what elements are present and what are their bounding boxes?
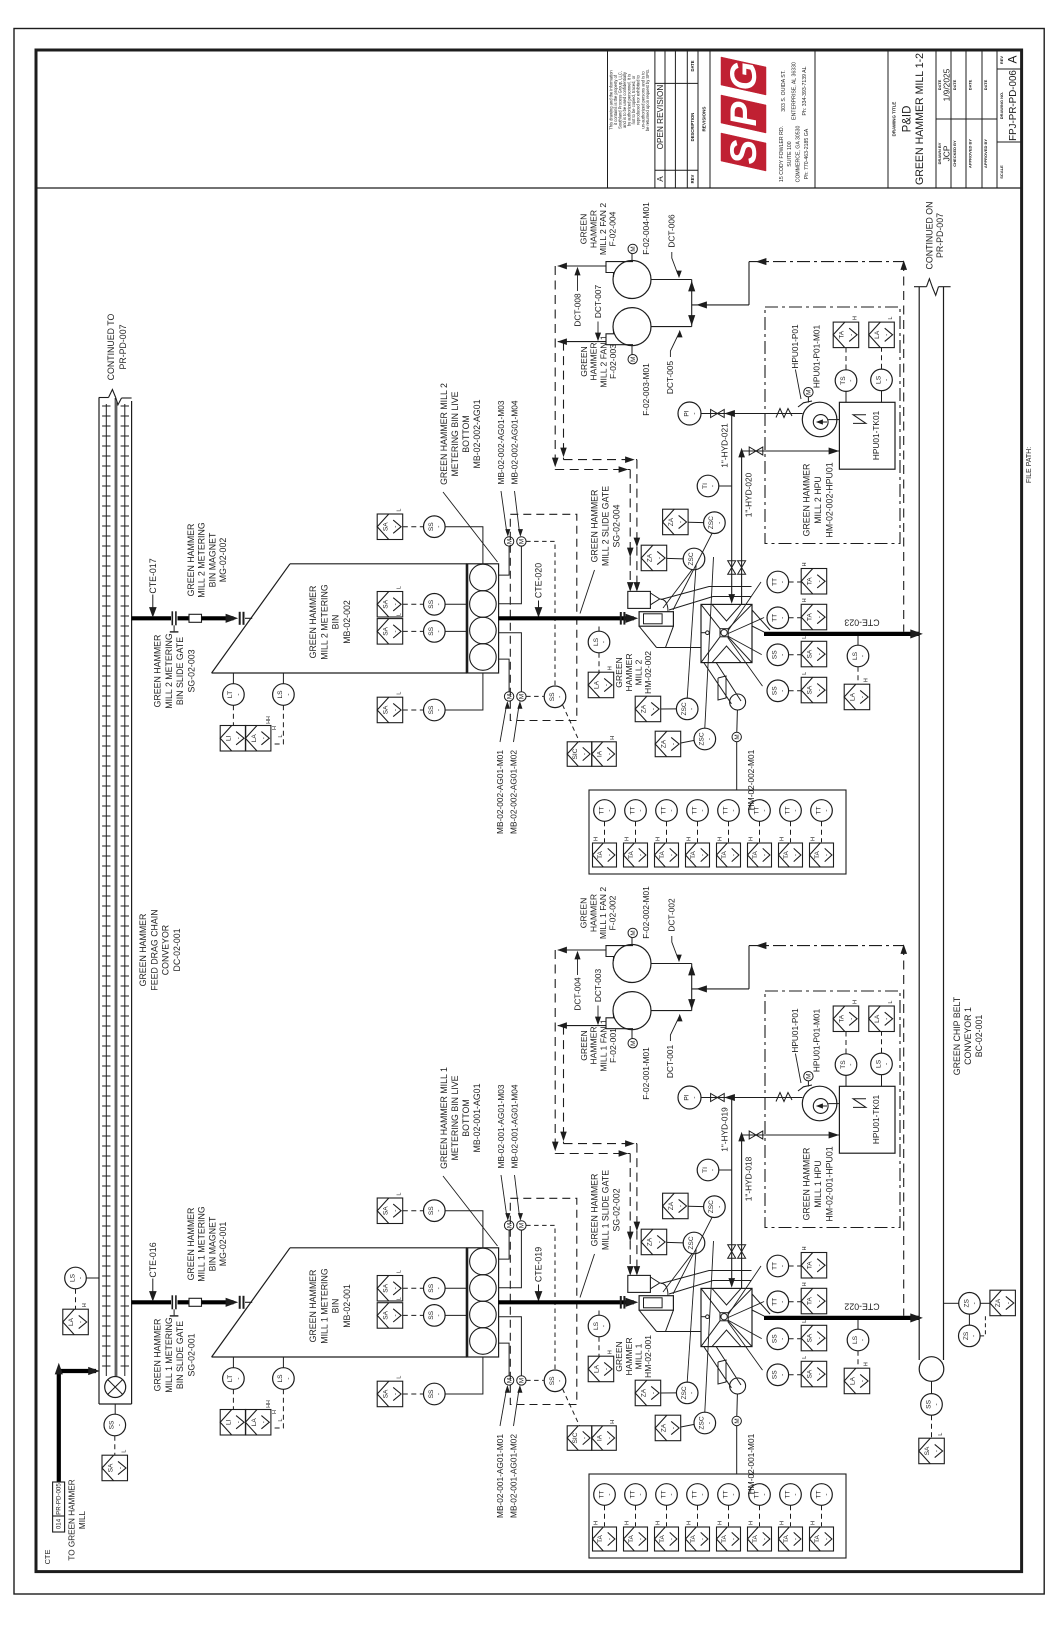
svg-text:BOTTOM: BOTTOM xyxy=(461,415,471,452)
svg-text:ZSC: ZSC xyxy=(699,1416,706,1429)
svg-text:ZSC: ZSC xyxy=(699,732,706,745)
svg-text:L: L xyxy=(397,1270,403,1273)
svg-text:H: H xyxy=(779,1521,785,1525)
svg-text:MB-02-001-AG01: MB-02-001-AG01 xyxy=(472,1083,482,1152)
svg-text:H: H xyxy=(655,1521,661,1525)
svg-text:TA: TA xyxy=(807,1297,814,1306)
svg-text:M: M xyxy=(806,1074,813,1079)
svg-text:CTE-016: CTE-016 xyxy=(148,1242,158,1277)
svg-text:-: - xyxy=(847,379,854,381)
svg-text:DCT-008: DCT-008 xyxy=(572,293,582,327)
svg-text:ZA: ZA xyxy=(668,517,675,526)
svg-text:H: H xyxy=(802,1282,808,1286)
svg-text:TT: TT xyxy=(629,1490,636,1498)
svg-text:GREEN HAMMER: GREEN HAMMER xyxy=(138,914,148,987)
svg-text:MILL 2 HPU: MILL 2 HPU xyxy=(813,476,823,524)
svg-text:TT: TT xyxy=(691,1490,698,1498)
svg-text:-: - xyxy=(678,521,685,523)
svg-text:MB-02-002-AG01-M04: MB-02-002-AG01-M04 xyxy=(509,400,519,484)
svg-text:-: - xyxy=(816,653,823,655)
svg-text:L: L xyxy=(278,734,284,737)
svg-text:TA: TA xyxy=(814,850,821,859)
svg-text:SS: SS xyxy=(428,626,435,635)
svg-text:L: L xyxy=(802,672,808,675)
svg-text:-: - xyxy=(792,1493,799,1495)
svg-text:-: - xyxy=(260,1421,267,1423)
svg-text:-: - xyxy=(77,1277,84,1279)
svg-text:TI: TI xyxy=(702,483,709,489)
svg-text:JCP: JCP xyxy=(941,145,951,161)
svg-text:-: - xyxy=(556,696,563,698)
svg-text:L: L xyxy=(397,1376,403,1379)
svg-text:GREEN HAMMER: GREEN HAMMER xyxy=(186,524,196,597)
svg-text:TA: TA xyxy=(659,1534,666,1543)
svg-text:1"-HYD-021: 1"-HYD-021 xyxy=(719,423,729,468)
svg-text:DC-02-001: DC-02-001 xyxy=(172,928,182,971)
svg-text:DCT-006: DCT-006 xyxy=(667,214,677,248)
svg-text:TT: TT xyxy=(660,806,667,814)
svg-text:-: - xyxy=(716,1206,723,1208)
svg-text:H: H xyxy=(748,837,754,841)
svg-text:A: A xyxy=(656,176,665,182)
svg-text:Ph: 334-393-7139 AL: Ph: 334-393-7139 AL xyxy=(802,66,808,115)
svg-text:MILL 1 METERING: MILL 1 METERING xyxy=(197,1206,207,1282)
svg-text:-: - xyxy=(691,1096,698,1098)
svg-text:SS: SS xyxy=(925,1399,932,1408)
svg-text:-: - xyxy=(824,1538,831,1540)
svg-text:F-02-002: F-02-002 xyxy=(608,895,618,930)
svg-text:L: L xyxy=(397,692,403,695)
svg-text:-: - xyxy=(761,809,768,811)
svg-text:-: - xyxy=(670,743,677,745)
svg-text:-: - xyxy=(779,1374,786,1376)
svg-text:TT: TT xyxy=(784,1490,791,1498)
svg-text:-: - xyxy=(117,1467,124,1469)
svg-text:DCT-005: DCT-005 xyxy=(665,361,675,395)
svg-text:-: - xyxy=(650,708,657,710)
svg-text:-: - xyxy=(934,1450,941,1452)
svg-text:MILL 2 FAN 1: MILL 2 FAN 1 xyxy=(598,335,608,387)
svg-text:SS: SS xyxy=(772,650,779,659)
svg-text:HAMMER: HAMMER xyxy=(624,653,634,691)
svg-text:PR-PD-007: PR-PD-007 xyxy=(118,324,128,369)
svg-text:DATE: DATE xyxy=(690,60,695,71)
svg-text:H: H xyxy=(686,837,692,841)
svg-text:-: - xyxy=(816,1337,823,1339)
svg-text:M: M xyxy=(630,930,637,935)
svg-text:OPEN REVISION: OPEN REVISION xyxy=(656,85,665,150)
svg-text:-: - xyxy=(731,1538,738,1540)
svg-text:-: - xyxy=(78,1321,85,1323)
svg-text:-: - xyxy=(779,1265,786,1267)
svg-text:-: - xyxy=(606,1493,613,1495)
svg-text:LT: LT xyxy=(227,691,234,698)
svg-text:SA: SA xyxy=(807,685,814,694)
svg-text:DCT-004: DCT-004 xyxy=(572,977,582,1011)
svg-text:MB-02-002: MB-02-002 xyxy=(342,600,352,644)
svg-text:METERING BIN LIVE: METERING BIN LIVE xyxy=(450,1075,460,1160)
svg-text:LS: LS xyxy=(593,1321,600,1330)
svg-text:SA: SA xyxy=(383,1310,390,1319)
svg-text:TT: TT xyxy=(598,806,605,814)
svg-text:GREEN: GREEN xyxy=(614,657,624,688)
svg-text:H: H xyxy=(853,316,859,320)
svg-text:SA: SA xyxy=(383,1283,390,1292)
svg-text:MG-02-001: MG-02-001 xyxy=(218,1222,228,1267)
svg-text:SG-02-004: SG-02-004 xyxy=(612,504,622,547)
svg-text:H: H xyxy=(779,837,785,841)
svg-text:TA: TA xyxy=(659,850,666,859)
svg-text:-: - xyxy=(637,1493,644,1495)
svg-text:CTE-017: CTE-017 xyxy=(148,558,158,593)
svg-text:-: - xyxy=(859,655,866,657)
svg-text:M: M xyxy=(630,357,637,362)
svg-text:LS: LS xyxy=(875,375,882,384)
svg-text:LT: LT xyxy=(227,1375,234,1382)
svg-text:HPU01-P01: HPU01-P01 xyxy=(790,324,800,369)
svg-text:LI: LI xyxy=(226,1419,233,1425)
svg-text:-: - xyxy=(392,1287,399,1289)
svg-text:-: - xyxy=(669,854,676,856)
svg-text:MB-02-001-AG01-M03: MB-02-001-AG01-M03 xyxy=(496,1084,506,1168)
svg-text:P&ID: P&ID xyxy=(901,106,913,133)
svg-text:-: - xyxy=(606,1437,613,1439)
svg-text:-: - xyxy=(816,580,823,582)
svg-text:PI: PI xyxy=(683,1094,690,1100)
svg-text:TT: TT xyxy=(598,1490,605,1498)
svg-text:ZA: ZA xyxy=(661,739,668,748)
svg-text:-: - xyxy=(637,809,644,811)
svg-text:ZA: ZA xyxy=(647,1237,654,1246)
svg-text:MILL 1 FAN 1: MILL 1 FAN 1 xyxy=(598,1019,608,1071)
svg-text:SA: SA xyxy=(924,1446,931,1455)
svg-text:-: - xyxy=(638,1538,645,1540)
svg-text:014: 014 xyxy=(56,1518,63,1529)
svg-text:ZS: ZS xyxy=(963,1331,970,1340)
svg-text:SS: SS xyxy=(428,599,435,608)
svg-text:SCALE: SCALE xyxy=(999,165,1004,179)
svg-text:CONTINUED ON: CONTINUED ON xyxy=(924,202,934,270)
svg-text:SS: SS xyxy=(549,692,556,701)
svg-text:DCT-001: DCT-001 xyxy=(665,1045,675,1079)
svg-text:MB-02-001-AG01-M04: MB-02-001-AG01-M04 xyxy=(509,1084,519,1168)
svg-text:F-02-003-M01: F-02-003-M01 xyxy=(641,363,651,416)
svg-text:BIN SLIDE GATE: BIN SLIDE GATE xyxy=(175,1321,185,1389)
svg-text:FEED DRAG CHAIN: FEED DRAG CHAIN xyxy=(149,909,159,990)
svg-text:GREEN: GREEN xyxy=(579,346,589,377)
svg-text:M: M xyxy=(734,1418,741,1423)
svg-text:-: - xyxy=(670,1427,677,1429)
svg-text:-: - xyxy=(436,1210,443,1212)
svg-text:FILE PATH:: FILE PATH: xyxy=(1026,447,1033,483)
svg-text:HAMMER: HAMMER xyxy=(624,1337,634,1375)
svg-text:-: - xyxy=(689,708,696,710)
svg-text:DCT-003: DCT-003 xyxy=(593,969,603,1003)
svg-text:-: - xyxy=(779,1338,786,1340)
svg-text:-: - xyxy=(762,854,769,856)
svg-text:LS: LS xyxy=(875,1059,882,1068)
svg-text:-: - xyxy=(816,1300,823,1302)
svg-text:MILL: MILL xyxy=(78,1510,87,1529)
svg-text:-: - xyxy=(691,412,698,414)
svg-text:CONVEYOR 1: CONVEYOR 1 xyxy=(963,1007,973,1065)
svg-text:-: - xyxy=(779,690,786,692)
svg-text:TT: TT xyxy=(815,1490,822,1498)
svg-text:ZSC: ZSC xyxy=(681,702,688,715)
svg-text:LI: LI xyxy=(226,735,233,741)
svg-text:MB-02-002-AG01-M02: MB-02-002-AG01-M02 xyxy=(508,750,518,834)
svg-text:GREEN: GREEN xyxy=(579,1030,589,1061)
svg-text:-: - xyxy=(656,1241,663,1243)
svg-text:HAMMER: HAMMER xyxy=(588,894,598,932)
svg-text:PI: PI xyxy=(683,410,690,416)
svg-text:SS: SS xyxy=(772,1370,779,1379)
svg-text:GREEN: GREEN xyxy=(614,1341,624,1372)
svg-text:L: L xyxy=(802,636,808,639)
svg-text:L: L xyxy=(888,1000,894,1003)
svg-text:1"-HYD-019: 1"-HYD-019 xyxy=(719,1107,729,1152)
svg-text:TA: TA xyxy=(721,850,728,859)
svg-text:TA: TA xyxy=(783,1534,790,1543)
svg-text:DRAWING TITLE: DRAWING TITLE xyxy=(891,102,896,137)
svg-text:F-02-002-M01: F-02-002-M01 xyxy=(641,886,651,939)
svg-text:L: L xyxy=(802,1356,808,1359)
svg-text:-: - xyxy=(706,1422,713,1424)
svg-text:HPU01-P01-M01: HPU01-P01-M01 xyxy=(811,1009,821,1073)
svg-text:L: L xyxy=(802,1320,808,1323)
svg-text:ZS: ZS xyxy=(963,1298,970,1307)
svg-text:LS: LS xyxy=(852,1335,859,1344)
svg-text:L: L xyxy=(397,508,403,511)
svg-text:-: - xyxy=(392,1210,399,1212)
svg-text:H: H xyxy=(810,837,816,841)
svg-text:GREEN CHIP BELT: GREEN CHIP BELT xyxy=(952,996,962,1075)
svg-text:1"-HYD-020: 1"-HYD-020 xyxy=(743,472,753,517)
svg-text:DESCRIPTION: DESCRIPTION xyxy=(690,113,695,142)
svg-text:ZSC: ZSC xyxy=(708,516,715,529)
svg-text:SS: SS xyxy=(428,1206,435,1215)
svg-text:MILL 2 SLIDE GATE: MILL 2 SLIDE GATE xyxy=(600,486,610,566)
svg-text:H: H xyxy=(802,562,808,566)
svg-text:SA: SA xyxy=(383,705,390,714)
svg-text:ZA: ZA xyxy=(641,1388,648,1397)
svg-text:SA: SA xyxy=(383,1389,390,1398)
svg-text:SS: SS xyxy=(772,686,779,695)
svg-text:H: H xyxy=(802,1246,808,1250)
svg-text:MILL 1 SLIDE GATE: MILL 1 SLIDE GATE xyxy=(600,1170,610,1250)
svg-text:H: H xyxy=(624,1521,630,1525)
svg-text:PR-PD-007: PR-PD-007 xyxy=(935,213,945,258)
svg-text:GREEN HAMMER: GREEN HAMMER xyxy=(153,635,163,708)
svg-text:GREEN HAMMER: GREEN HAMMER xyxy=(589,490,599,563)
svg-text:-: - xyxy=(607,854,614,856)
svg-text:BIN MAGNET: BIN MAGNET xyxy=(207,532,217,587)
svg-text:-: - xyxy=(607,1538,614,1540)
svg-text:-: - xyxy=(730,1493,737,1495)
svg-text:-: - xyxy=(848,1018,855,1020)
svg-text:-: - xyxy=(650,1392,657,1394)
svg-text:APPROVED BY: APPROVED BY xyxy=(983,139,988,168)
svg-text:M: M xyxy=(806,390,813,395)
svg-text:GREEN HAMMER MILL 1-2: GREEN HAMMER MILL 1-2 xyxy=(914,53,926,185)
svg-text:SG-02-003: SG-02-003 xyxy=(186,649,196,692)
svg-text:-: - xyxy=(600,1325,607,1327)
svg-text:-: - xyxy=(824,854,831,856)
svg-text:ZSC: ZSC xyxy=(681,1386,688,1399)
svg-text:ZSC: ZSC xyxy=(688,552,695,565)
svg-text:be returned upon request by SP: be returned upon request by SPG. xyxy=(645,69,650,131)
svg-text:-: - xyxy=(709,1169,716,1171)
svg-text:MILL 1 METERING: MILL 1 METERING xyxy=(319,1268,329,1344)
svg-text:MG-02-002: MG-02-002 xyxy=(218,538,228,583)
svg-text:1"-HYD-018: 1"-HYD-018 xyxy=(743,1156,753,1201)
svg-text:HM-02-002: HM-02-002 xyxy=(643,651,653,694)
svg-text:TI: TI xyxy=(702,1167,709,1173)
svg-text:L: L xyxy=(397,586,403,589)
svg-text:METERING BIN LIVE: METERING BIN LIVE xyxy=(450,391,460,476)
svg-text:-: - xyxy=(656,557,663,559)
svg-text:TA: TA xyxy=(807,1261,814,1270)
svg-text:TO GREEN HAMMER: TO GREEN HAMMER xyxy=(67,1479,76,1560)
svg-text:TT: TT xyxy=(753,806,760,814)
svg-text:CTE-022: CTE-022 xyxy=(844,1302,879,1312)
svg-text:MB-02-001-AG01-M01: MB-02-001-AG01-M01 xyxy=(495,1434,505,1518)
svg-text:BC-02-001: BC-02-001 xyxy=(974,1015,984,1058)
svg-text:-: - xyxy=(436,1287,443,1289)
svg-text:MILL 2 METERING: MILL 2 METERING xyxy=(319,584,329,660)
svg-text:ZSC: ZSC xyxy=(688,1236,695,1249)
svg-text:PR-PD-005: PR-PD-005 xyxy=(56,1483,63,1515)
svg-text:-: - xyxy=(699,1493,706,1495)
svg-text:DATE: DATE xyxy=(983,79,988,90)
svg-text:M: M xyxy=(519,539,526,544)
svg-text:F-02-001-M01: F-02-001-M01 xyxy=(641,1047,651,1100)
svg-text:TA: TA xyxy=(783,850,790,859)
svg-text:BIN: BIN xyxy=(331,1299,341,1314)
svg-text:-: - xyxy=(638,854,645,856)
svg-text:HPU01-P01-M01: HPU01-P01-M01 xyxy=(811,325,821,389)
svg-text:GREEN HAMMER MILL 2: GREEN HAMMER MILL 2 xyxy=(439,383,449,485)
svg-text:H: H xyxy=(272,1410,278,1414)
svg-text:TS: TS xyxy=(840,376,847,385)
svg-text:H: H xyxy=(593,1521,599,1525)
svg-text:-: - xyxy=(606,753,613,755)
svg-text:-: - xyxy=(436,630,443,632)
svg-text:TS: TS xyxy=(840,1060,847,1069)
svg-text:H: H xyxy=(82,1303,88,1307)
svg-text:H: H xyxy=(864,1362,870,1366)
svg-text:CONTINUED TO: CONTINUED TO xyxy=(106,314,116,381)
svg-text:SUITE 100: SUITE 100 xyxy=(787,141,793,166)
svg-text:-: - xyxy=(706,738,713,740)
svg-text:MB-02-001-AG01-M02: MB-02-001-AG01-M02 xyxy=(508,1434,518,1518)
svg-text:GREEN HAMMER: GREEN HAMMER xyxy=(801,1148,811,1221)
svg-text:L: L xyxy=(397,1297,403,1300)
svg-text:-: - xyxy=(792,809,799,811)
svg-text:MB-02-002-AG01-M03: MB-02-002-AG01-M03 xyxy=(496,400,506,484)
svg-text:-: - xyxy=(883,379,890,381)
svg-text:IA: IA xyxy=(597,1434,604,1441)
svg-text:H: H xyxy=(608,1350,614,1354)
svg-text:-: - xyxy=(606,809,613,811)
svg-text:-: - xyxy=(816,689,823,691)
svg-text:LA: LA xyxy=(874,1014,881,1023)
svg-text:LA: LA xyxy=(251,734,258,743)
svg-text:-: - xyxy=(779,654,786,656)
svg-text:SS: SS xyxy=(428,1283,435,1292)
svg-text:LA: LA xyxy=(850,692,857,701)
svg-text:CONVEYOR: CONVEYOR xyxy=(161,925,171,975)
svg-text:H: H xyxy=(272,726,278,730)
svg-text:-: - xyxy=(600,641,607,643)
svg-text:ENTERPRISE, AL 36330: ENTERPRISE, AL 36330 xyxy=(791,62,797,120)
svg-text:L: L xyxy=(121,1450,127,1453)
svg-text:SS: SS xyxy=(428,705,435,714)
svg-text:BIN: BIN xyxy=(331,615,341,630)
svg-text:TA: TA xyxy=(628,850,635,859)
svg-text:IA: IA xyxy=(597,750,604,757)
svg-text:H: H xyxy=(853,1000,859,1004)
svg-text:-: - xyxy=(816,1264,823,1266)
svg-text:LA: LA xyxy=(594,1364,601,1373)
svg-text:F-02-004-M01: F-02-004-M01 xyxy=(641,202,651,255)
svg-text:-: - xyxy=(436,603,443,605)
svg-text:-: - xyxy=(709,485,716,487)
svg-text:-: - xyxy=(859,1339,866,1341)
svg-text:-: - xyxy=(761,1493,768,1495)
svg-text:LA: LA xyxy=(68,1317,75,1326)
svg-text:303 S. OUIDA ST.: 303 S. OUIDA ST. xyxy=(781,70,787,112)
svg-text:H: H xyxy=(655,837,661,841)
svg-text:HM-02-001: HM-02-001 xyxy=(643,1335,653,1378)
svg-text:TA: TA xyxy=(721,1534,728,1543)
svg-text:HM-02-001-HPU01: HM-02-001-HPU01 xyxy=(825,1146,835,1221)
svg-text:-: - xyxy=(235,737,242,739)
svg-text:MILL 2 METERING: MILL 2 METERING xyxy=(197,522,207,598)
svg-text:-: - xyxy=(436,709,443,711)
svg-text:LA: LA xyxy=(850,1376,857,1385)
svg-text:MILL 2: MILL 2 xyxy=(634,659,644,685)
svg-text:-: - xyxy=(556,1380,563,1382)
svg-text:MILL 1: MILL 1 xyxy=(634,1343,644,1369)
svg-text:-: - xyxy=(669,1538,676,1540)
svg-text:-: - xyxy=(116,1424,123,1426)
svg-text:-: - xyxy=(235,693,242,695)
svg-text:ZA: ZA xyxy=(995,1298,1002,1307)
svg-text:P: P xyxy=(723,101,764,126)
svg-text:SS: SS xyxy=(772,1334,779,1343)
svg-text:MILL 1 METERING: MILL 1 METERING xyxy=(164,1317,174,1393)
svg-text:-: - xyxy=(678,1205,685,1207)
svg-text:DRAWING NO.: DRAWING NO. xyxy=(999,92,1004,120)
svg-text:-: - xyxy=(603,1368,610,1370)
svg-text:DCT-007: DCT-007 xyxy=(593,285,603,319)
svg-text:-: - xyxy=(716,522,723,524)
svg-text:FPJ-PR-PD-006: FPJ-PR-PD-006 xyxy=(1008,70,1019,141)
svg-text:TT: TT xyxy=(691,806,698,814)
svg-text:CTE-020: CTE-020 xyxy=(533,563,543,598)
svg-text:HM-02-002-HPU01: HM-02-002-HPU01 xyxy=(825,462,835,537)
svg-text:HAMMER: HAMMER xyxy=(588,210,598,248)
svg-text:TA: TA xyxy=(752,850,759,859)
svg-text:SA: SA xyxy=(383,522,390,531)
svg-text:-: - xyxy=(699,809,706,811)
svg-text:GREEN: GREEN xyxy=(579,214,589,245)
svg-text:TT: TT xyxy=(784,806,791,814)
svg-text:-: - xyxy=(933,1403,940,1405)
svg-text:GREEN HAMMER: GREEN HAMMER xyxy=(153,1319,163,1392)
svg-text:BOTTOM: BOTTOM xyxy=(461,1099,471,1136)
